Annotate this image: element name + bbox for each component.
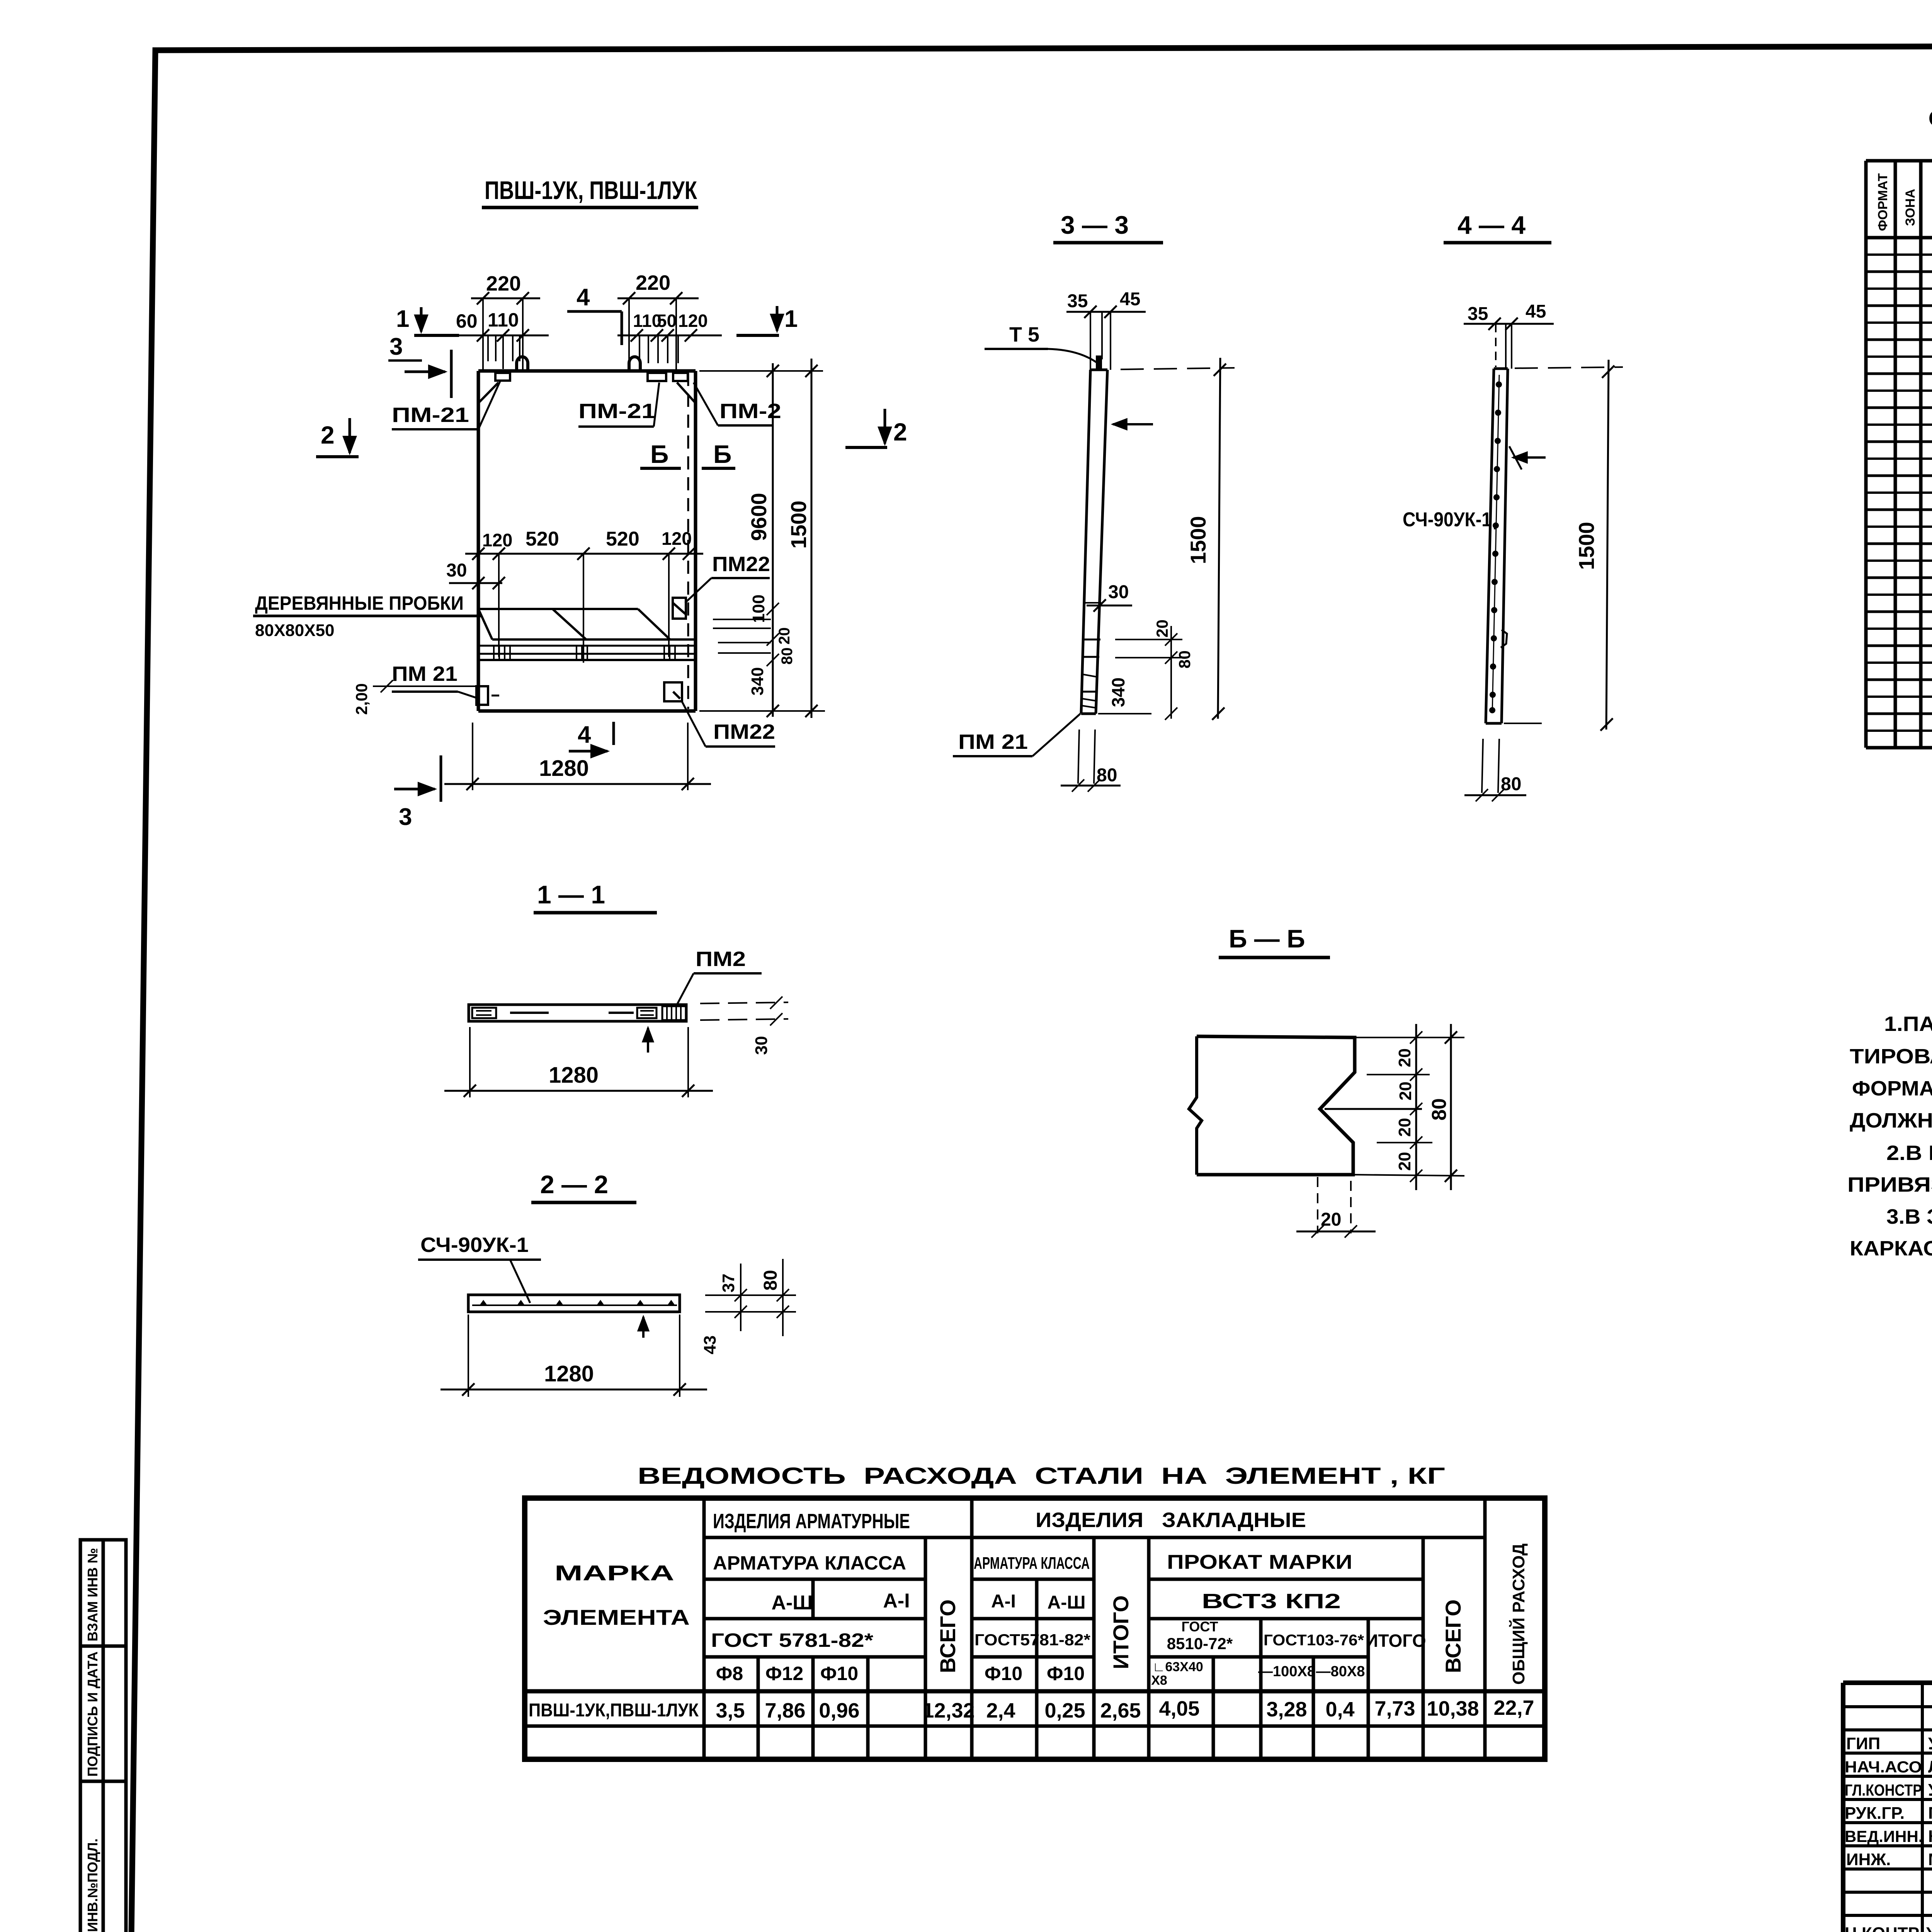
svg-text:ГОСТ5781-82*: ГОСТ5781-82*: [975, 1631, 1091, 1649]
title block frame: [1843, 1683, 1932, 1932]
svg-text:ОБЩИЙ РАСХОД: ОБЩИЙ РАСХОД: [1509, 1543, 1528, 1685]
section 3-3 loop mark: [1096, 355, 1102, 370]
svg-text:МАРКА: МАРКА: [554, 1561, 674, 1585]
svg-text:Ф10: Ф10: [820, 1663, 858, 1684]
svg-text:ЛЕВИНА: ЛЕВИНА: [1928, 1757, 1932, 1776]
assembly units table heading: [1928, 105, 1932, 132]
svg-text:2,65: 2,65: [1100, 1699, 1141, 1722]
svg-text:0,96: 0,96: [819, 1699, 859, 1722]
dimension line 1500 main: [786, 359, 818, 718]
svg-text:ПВШ-1УК,ПВШ-1ЛУК: ПВШ-1УК,ПВШ-1ЛУК: [529, 1700, 699, 1721]
section 3-3 title: [1053, 211, 1163, 243]
small dims right 100 80 20 340: [748, 595, 796, 696]
section 3-3 T5 callout: [985, 323, 1097, 362]
wooden plugs parallelogram: [478, 609, 670, 639]
svg-text:ПОЛОСИНА: ПОЛОСИНА: [1928, 1804, 1932, 1823]
svg-text:340: 340: [1108, 677, 1128, 707]
section 3-3 arrow to bar: [1113, 423, 1153, 425]
callout PM-21 middle: [578, 383, 659, 427]
section mark 1 right: [736, 306, 798, 335]
svg-text:МАЛАШТА: МАЛАШТА: [1928, 1850, 1932, 1869]
small dim 200 bottom left: [352, 680, 478, 715]
lifting loop right: [629, 357, 640, 372]
svg-text:ГОСТ 5781-82*: ГОСТ 5781-82*: [711, 1629, 874, 1651]
panel outline: [478, 371, 696, 711]
svg-text:ПМ-21: ПМ-21: [392, 403, 469, 427]
section 1-1 panel bar: [469, 1005, 686, 1021]
svg-text:2: 2: [321, 421, 335, 449]
dimension 1280 main bottom: [444, 723, 711, 790]
svg-text:120: 120: [678, 311, 708, 331]
callout PM22 upper: [685, 553, 770, 603]
svg-text:30: 30: [446, 560, 467, 581]
callout PM22 bottom: [681, 700, 775, 747]
section mark 1 left: [396, 306, 459, 335]
section 3-3 dim 80 bottom: [1061, 730, 1121, 792]
section 3-3 callout PM 21: [953, 714, 1080, 756]
svg-text:КИРЕЕВА: КИРЕЕВА: [1928, 1827, 1932, 1846]
embed plate PM-21 top left: [495, 373, 510, 381]
assembly units specification table grid: [1866, 161, 1932, 748]
vertical axis lines from dim 120-520: [499, 554, 669, 663]
svg-text:3,5: 3,5: [716, 1699, 745, 1722]
svg-text:—100Х8: —100Х8: [1258, 1663, 1315, 1680]
title block signature texts: [1845, 1734, 1932, 1932]
lifting loop left: [517, 357, 528, 372]
svg-text:45: 45: [1120, 289, 1140, 310]
main view title PVSh-1uk, PVSh-1luk: [482, 176, 698, 207]
svg-text:АРМАТУРА КЛАССА: АРМАТУРА КЛАССА: [713, 1552, 906, 1574]
svg-text:ГОСТ103-76*: ГОСТ103-76*: [1264, 1632, 1364, 1649]
section B-B title: [1219, 924, 1330, 957]
svg-text:ИТОГО: ИТОГО: [1109, 1595, 1133, 1669]
callout PM-2 right: [694, 383, 781, 425]
shelf horizontal lines: [478, 639, 696, 660]
svg-text:1: 1: [396, 306, 409, 332]
svg-text:ИНВ.№ПОДЛ.: ИНВ.№ПОДЛ.: [85, 1838, 100, 1932]
svg-text:100: 100: [749, 595, 768, 623]
svg-text:РУК.ГР.: РУК.ГР.: [1845, 1804, 1905, 1823]
svg-text:ИТОГО: ИТОГО: [1365, 1631, 1426, 1651]
svg-text:ЭЛЕМЕНТА: ЭЛЕМЕНТА: [543, 1605, 690, 1629]
svg-text:ПМ-21: ПМ-21: [578, 400, 656, 423]
svg-text:20: 20: [1395, 1152, 1414, 1171]
svg-text:2,4: 2,4: [986, 1699, 1015, 1722]
svg-text:0,4: 0,4: [1325, 1698, 1354, 1721]
embed plate PM-21 top middle: [648, 373, 666, 381]
svg-text:1500: 1500: [1186, 516, 1210, 564]
svg-text:1 — 1: 1 — 1: [537, 880, 605, 909]
notes paragraph: [1847, 1012, 1932, 1260]
svg-text:Б: Б: [713, 440, 731, 468]
section mark 4 bottom: [569, 721, 614, 751]
svg-text:3: 3: [399, 804, 412, 830]
section 3-3 dim 1500: [1186, 358, 1226, 720]
svg-text:Х8: Х8: [1151, 1673, 1167, 1688]
svg-text:1280: 1280: [544, 1361, 594, 1386]
svg-text:ПОДПИСЬ И ДАТА: ПОДПИСЬ И ДАТА: [85, 1651, 100, 1777]
svg-text:43: 43: [701, 1335, 719, 1354]
section 4-4 mesh line with dots: [1489, 375, 1502, 713]
dimension 30: [446, 560, 505, 589]
svg-text:ПМ22: ПМ22: [713, 720, 775, 743]
svg-text:Б: Б: [650, 440, 668, 468]
svg-text:Ф12: Ф12: [765, 1663, 803, 1684]
svg-text:АРМАТУРА КЛАССА: АРМАТУРА КЛАССА: [974, 1554, 1090, 1573]
callout PM 21 bottom left: [392, 662, 476, 698]
steel table data row: [529, 1696, 1534, 1722]
svg-text:ФОРМАХ; ПРИ ЭТОМ ЛИЦЕВАЯ ПОВЕР: ФОРМАХ; ПРИ ЭТОМ ЛИЦЕВАЯ ПОВЕРХНОСТЬ (ОБ…: [1852, 1077, 1932, 1100]
svg-text:ПРИВЯЗАТЬ, А АНКЕРА ЗАКЛАДНЫХ: ПРИВЯЗАТЬ, А АНКЕРА ЗАКЛАДНЫХ ДЕТАЛЕЙ ПР…: [1847, 1173, 1932, 1196]
svg-text:9600: 9600: [747, 493, 771, 541]
section 4-4 panel bar: [1486, 369, 1508, 723]
dimension 220 left: [471, 272, 540, 371]
section 1-1 title: [534, 880, 657, 913]
section 4-4 dim 80 bottom: [1464, 739, 1526, 801]
svg-text:—80Х8: —80Х8: [1316, 1663, 1365, 1680]
svg-text:4,05: 4,05: [1159, 1697, 1199, 1720]
svg-text:Ф10: Ф10: [1047, 1663, 1085, 1684]
svg-text:30: 30: [1108, 582, 1129, 602]
svg-text:220: 220: [486, 272, 521, 295]
section mark 3 top left: [388, 333, 451, 398]
svg-text:2,00: 2,00: [352, 683, 371, 715]
svg-text:12,32: 12,32: [922, 1699, 975, 1722]
steel table horizontal lines: [525, 1537, 1545, 1726]
svg-text:220: 220: [636, 271, 670, 294]
section B-B dims 20x4: [1367, 1024, 1432, 1190]
section B-B dim 80: [1353, 1024, 1464, 1190]
svg-text:37: 37: [719, 1274, 738, 1293]
section 2-2 title: [531, 1170, 636, 1202]
svg-text:20: 20: [776, 628, 793, 645]
svg-text:80: 80: [1097, 765, 1117, 786]
svg-text:20: 20: [1395, 1118, 1414, 1137]
section 3-3 dim 35 45: [1066, 289, 1146, 370]
section 2-2 mesh line with dots: [472, 1300, 677, 1305]
dimension 60 110 left: [454, 309, 549, 369]
section 4-4 mesh callout S4-90uk-1: [1403, 509, 1499, 531]
svg-text:110: 110: [488, 309, 519, 331]
svg-text:ФОРМАТ: ФОРМАТ: [1876, 173, 1890, 231]
svg-text:УЛИТИНА: УЛИТИНА: [1926, 1924, 1932, 1932]
dimension 120 520 520 120: [465, 528, 703, 560]
svg-text:520: 520: [606, 528, 639, 550]
svg-text:35: 35: [1468, 304, 1488, 324]
callout PM-21 left: [392, 381, 500, 429]
svg-text:ГОСТ: ГОСТ: [1181, 1619, 1218, 1634]
svg-text:35: 35: [1067, 291, 1088, 311]
svg-text:1280: 1280: [549, 1063, 599, 1088]
section 4-4 arrow to bar: [1509, 446, 1546, 469]
left margin stamp: [80, 1540, 126, 1932]
svg-text:ВЗАМ ИНВ №: ВЗАМ ИНВ №: [85, 1548, 100, 1641]
embed plate PM-2 top right: [673, 373, 688, 381]
spec table half-row lines in narrow columns: [1866, 255, 1932, 731]
svg-text:ГЛ.КОНСТР: ГЛ.КОНСТР: [1845, 1781, 1922, 1799]
svg-text:3 — 3: 3 — 3: [1061, 211, 1129, 239]
section 4-4 extension lines: [1504, 367, 1623, 723]
svg-text:22,7: 22,7: [1493, 1696, 1534, 1719]
svg-text:520: 520: [526, 528, 559, 550]
section 1-1 PM2 callout: [677, 947, 762, 1004]
svg-text:20: 20: [1396, 1082, 1415, 1100]
svg-text:Н.КОНТР.: Н.КОНТР.: [1845, 1924, 1922, 1932]
section B-B shape: [1189, 1036, 1355, 1175]
section 1-1 dim 1280: [444, 1027, 713, 1097]
steel table outer frame: [525, 1498, 1545, 1759]
section mark 4 top: [567, 284, 622, 345]
svg-text:20: 20: [1153, 619, 1171, 638]
section B-B dim 20 bottom: [1296, 1177, 1376, 1238]
svg-text:ВСЕГО: ВСЕГО: [1441, 1599, 1465, 1673]
svg-text:10,38: 10,38: [1427, 1697, 1479, 1720]
svg-text:3: 3: [389, 333, 403, 360]
svg-text:ЗОНА: ЗОНА: [1903, 189, 1918, 226]
svg-text:80Х80Х50: 80Х80Х50: [255, 621, 335, 640]
embed plate PM22 on right edge: [673, 598, 686, 619]
svg-text:1500: 1500: [786, 500, 811, 549]
svg-text:7,86: 7,86: [765, 1699, 805, 1722]
svg-text:ПМ2: ПМ2: [696, 947, 746, 971]
section 2-2 panel bar: [468, 1295, 680, 1312]
svg-text:ИЗДЕЛИЯ АРМАТУРНЫЕ: ИЗДЕЛИЯ АРМАТУРНЫЕ: [713, 1510, 910, 1533]
wooden plugs label: [253, 592, 481, 640]
svg-text:1: 1: [784, 306, 798, 332]
svg-text:ДОЛЖНА БЫТЬ ОБРАЩЕНА К ДНУ ФОР: ДОЛЖНА БЫТЬ ОБРАЩЕНА К ДНУ ФОРМЫ.: [1850, 1109, 1932, 1132]
svg-text:20: 20: [1395, 1048, 1414, 1067]
svg-text:СБОРОЧНЫЕ ЕДИНИЦЫ НА ОДИН ЭЛЕМ: СБОРОЧНЫЕ ЕДИНИЦЫ НА ОДИН ЭЛЕМЕНТ: [1928, 105, 1932, 132]
section 3-3 dim 30: [1087, 582, 1132, 612]
section 3-3 dims 20 80: [1115, 619, 1194, 719]
section marks B-B: [640, 440, 735, 468]
svg-text:30: 30: [752, 1036, 771, 1055]
svg-text:КАРКАСА В ОПАЛУБКУ ПОЗ. 3А ОТО: КАРКАСА В ОПАЛУБКУ ПОЗ. 3А ОТОГНУТЬ В ПО…: [1850, 1237, 1932, 1260]
svg-text:80: 80: [1175, 650, 1194, 668]
svg-text:УЛИТИНА: УЛИТИНА: [1928, 1781, 1932, 1799]
svg-text:0,25: 0,25: [1044, 1699, 1085, 1722]
section 2-2 dim 1280: [440, 1315, 707, 1397]
svg-text:ИЗДЕЛИЯ ЗАКЛАДНЫЕ: ИЗДЕЛИЯ ЗАКЛАДНЫЕ: [1036, 1509, 1306, 1532]
svg-text:4: 4: [578, 721, 591, 748]
svg-text:ПМ 21: ПМ 21: [958, 730, 1028, 753]
svg-text:УЛИТИНА: УЛИТИНА: [1928, 1734, 1932, 1753]
svg-text:340: 340: [748, 667, 767, 696]
steel table header texts: [543, 1509, 1528, 1688]
svg-text:А-Ш: А-Ш: [1048, 1592, 1086, 1613]
section B-B notch axis line: [1325, 1108, 1422, 1110]
svg-text:3,28: 3,28: [1266, 1698, 1307, 1721]
svg-text:8510-72*: 8510-72*: [1167, 1634, 1233, 1653]
plug hatch marks: [494, 646, 675, 660]
section 3-3 top extension line: [1098, 368, 1235, 714]
svg-text:60: 60: [456, 310, 478, 332]
section mark 2 right: [845, 409, 907, 447]
section 1-1 dim 30 right: [700, 997, 788, 1055]
svg-text:80: 80: [760, 1270, 781, 1291]
svg-text:120: 120: [482, 530, 512, 550]
dimension 110 50 120 right: [617, 311, 722, 363]
svg-text:ВСЕГО: ВСЕГО: [935, 1599, 960, 1673]
svg-text:А-I: А-I: [991, 1591, 1016, 1612]
section 4-4 dim 35 45: [1464, 301, 1554, 369]
svg-text:1280: 1280: [539, 756, 589, 781]
svg-text:45: 45: [1526, 301, 1546, 322]
section 2-2 dims 37 80 43: [701, 1259, 796, 1354]
bottom left plate PM21: [476, 686, 499, 705]
steel consumption table heading: [638, 1463, 1445, 1489]
bottom right plate PM22: [664, 682, 682, 701]
svg-text:20: 20: [1321, 1209, 1341, 1230]
svg-text:ПМ 21: ПМ 21: [392, 662, 457, 685]
svg-text:2 — 2: 2 — 2: [540, 1170, 608, 1199]
dimension 220 right: [617, 271, 699, 371]
svg-text:НАЧ.АСО: НАЧ.АСО: [1845, 1758, 1922, 1776]
svg-text:Ф10: Ф10: [985, 1663, 1022, 1684]
svg-text:4 — 4: 4 — 4: [1458, 211, 1526, 239]
shelf lines extending right of panel: [713, 619, 771, 653]
svg-text:4: 4: [577, 284, 590, 311]
svg-text:ДЕРЕВЯННЫЕ ПРОБКИ: ДЕРЕВЯННЫЕ ПРОБКИ: [255, 592, 464, 614]
svg-text:А-Ш: А-Ш: [771, 1592, 813, 1614]
section mark 3 bottom: [394, 755, 441, 830]
spec table row lines: [1866, 272, 1932, 714]
section 1-1 arrow up: [647, 1028, 649, 1053]
section 4-4 title: [1444, 211, 1551, 243]
spec table header labels: [1876, 173, 1932, 231]
svg-text:2: 2: [893, 418, 907, 446]
svg-text:50: 50: [657, 311, 677, 331]
svg-text:80: 80: [1501, 774, 1521, 794]
svg-text:2.В МЕСТАХ ПЕРЕСЕЧЕНИЯ СО СТЕР: 2.В МЕСТАХ ПЕРЕСЕЧЕНИЯ СО СТЕРЖНЯМИ СЕТК…: [1886, 1141, 1932, 1165]
svg-text:Т 5: Т 5: [1009, 323, 1039, 346]
svg-text:1.ПАНЕЛИ ВЕНТИЛЯЦИОННОЙ ШАХТЫ: 1.ПАНЕЛИ ВЕНТИЛЯЦИОННОЙ ШАХТЫ ПВШ-1Ж, ПВ…: [1884, 1012, 1932, 1036]
svg-text:∟63Х40: ∟63Х40: [1152, 1660, 1203, 1674]
steel table vertical lines: [704, 1498, 1485, 1759]
svg-text:ПМ22: ПМ22: [712, 553, 770, 576]
section 3-3 panel bar: [1081, 370, 1107, 714]
svg-text:ПВШ-1УК, ПВШ-1ЛУК: ПВШ-1УК, ПВШ-1ЛУК: [485, 176, 697, 204]
section 4-4 dim 1500: [1574, 360, 1614, 731]
svg-text:1500: 1500: [1574, 522, 1599, 570]
svg-text:120: 120: [662, 528, 692, 549]
section 2-2 mesh callout S4-90uk-1: [418, 1233, 541, 1303]
svg-text:80: 80: [1428, 1098, 1451, 1121]
title block signature grid: [1843, 1683, 1932, 1932]
svg-text:Б — Б: Б — Б: [1229, 924, 1305, 953]
section mark 2 left: [316, 418, 359, 457]
svg-text:ТИРОВАНЫ С УЧЕТОМ ИЗГОТОВЛЕНИЯ: ТИРОВАНЫ С УЧЕТОМ ИЗГОТОВЛЕНИЯ ИХ В ГОРИ…: [1850, 1045, 1932, 1068]
svg-text:ВЕД.ИНН.: ВЕД.ИНН.: [1845, 1827, 1923, 1845]
svg-text:ВЕДОМОСТЬ РАСХОДА СТАЛИ НА: ВЕДОМОСТЬ РАСХОДА СТАЛИ НА ЭЛЕМЕНТ , КГ: [638, 1463, 1445, 1489]
svg-text:А-I: А-I: [883, 1590, 910, 1612]
svg-text:7,73: 7,73: [1374, 1697, 1415, 1720]
svg-text:80: 80: [779, 648, 796, 665]
svg-text:3.В ЗАКЛАДНОЙ ДЕТАЛЕ ПМ21 ПОСЛ: 3.В ЗАКЛАДНОЙ ДЕТАЛЕ ПМ21 ПОСЛЕ. УСТАНОВ…: [1886, 1205, 1932, 1228]
section 2-2 arrow up: [642, 1317, 645, 1338]
svg-text:ПРОКАТ МАРКИ: ПРОКАТ МАРКИ: [1167, 1551, 1352, 1573]
svg-text:ВСТ3 КП2: ВСТ3 КП2: [1202, 1590, 1341, 1613]
svg-text:СЧ-90УК-1: СЧ-90УК-1: [420, 1233, 529, 1257]
dimension line 9600: [699, 363, 825, 717]
svg-text:ГИП: ГИП: [1846, 1734, 1880, 1753]
svg-text:ИНЖ.: ИНЖ.: [1846, 1850, 1891, 1869]
section 3-3 dim 340: [1108, 677, 1177, 720]
svg-text:СЧ-90УК-1: СЧ-90УК-1: [1403, 509, 1492, 531]
svg-text:Ф8: Ф8: [716, 1663, 743, 1684]
